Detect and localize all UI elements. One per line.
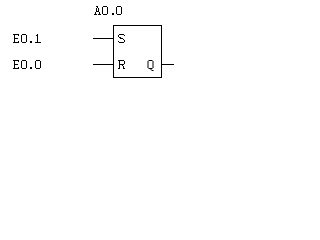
pin label R: [118, 60, 125, 69]
pin label Q: [148, 60, 154, 71]
node label A0.0: [94, 6, 122, 15]
wire E0.0 to R input: [93, 64, 114, 65]
node label E0.1: [13, 34, 41, 43]
wire Q output: [161, 64, 174, 65]
wire E0.1 to S input: [93, 38, 114, 39]
node label E0.0: [13, 60, 41, 69]
SR flip-flop block: [114, 26, 162, 78]
pin label S: [118, 34, 125, 43]
